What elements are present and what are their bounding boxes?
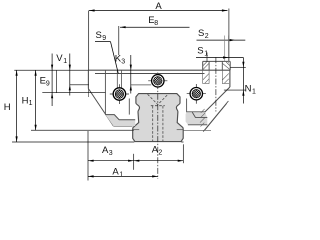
right ledge line extension <box>183 129 211 131</box>
dimension V1 <box>56 53 88 96</box>
screw circle 3 (right lube port) <box>187 79 206 109</box>
ground baseline (H reference) <box>12 141 134 143</box>
rail countersink (dashed V) <box>148 94 168 104</box>
left inner wall near rail head <box>128 99 130 115</box>
hatched bands below top line <box>203 70 229 83</box>
dimension S1 <box>196 46 243 62</box>
dimension A <box>89 1 229 70</box>
svg-text:S: S <box>198 28 204 39</box>
svg-text:A: A <box>112 167 119 178</box>
label S9 with leader <box>95 30 118 74</box>
cavity ceiling line (K3 reference) <box>131 84 152 86</box>
svg-text:3: 3 <box>121 58 125 65</box>
svg-text:N: N <box>245 83 252 94</box>
dimension H1 <box>22 70 37 130</box>
dimension E8 <box>119 15 190 55</box>
svg-text:S: S <box>96 30 102 41</box>
svg-text:H: H <box>4 102 11 113</box>
dimension K3 <box>115 53 132 93</box>
svg-text:3: 3 <box>109 150 113 157</box>
dimension N1 <box>224 58 256 104</box>
svg-text:1: 1 <box>252 88 256 95</box>
rail base shoulder ticks <box>133 129 139 131</box>
svg-text:1: 1 <box>119 171 123 178</box>
dimension A1 <box>88 131 158 181</box>
svg-text:1: 1 <box>29 100 33 107</box>
svg-text:9: 9 <box>46 81 50 88</box>
left lower lip (gray) <box>105 115 135 126</box>
rail cross-section body <box>133 94 184 142</box>
nut centerline <box>215 57 217 111</box>
svg-text:2: 2 <box>158 150 162 157</box>
right block edge <box>229 70 231 87</box>
right big chamfer <box>205 87 230 112</box>
dimension A3 <box>88 145 134 162</box>
dimension A2 <box>134 144 184 170</box>
end cap joint vertical <box>104 70 106 114</box>
right lower lip gray <box>186 112 208 125</box>
svg-text:S: S <box>197 46 203 57</box>
svg-text:2: 2 <box>205 33 209 40</box>
short edge line right of E9 <box>56 70 58 93</box>
svg-text:8: 8 <box>154 20 158 27</box>
right bottom edge <box>187 111 206 113</box>
svg-text:H: H <box>22 95 29 106</box>
rail bolt hole dashed <box>152 106 154 141</box>
dimension H <box>4 70 18 142</box>
clamp nut section top right <box>203 61 231 70</box>
block left edge <box>87 70 89 88</box>
countersink bottom dashed <box>151 105 165 107</box>
inner parallel chamfer lines <box>203 101 228 132</box>
screw circle 2 (rail bolt, center) <box>148 66 167 96</box>
block left chamfer diagonal <box>88 89 113 126</box>
lube channel <box>116 70 118 87</box>
svg-text:1: 1 <box>63 58 67 65</box>
svg-text:1: 1 <box>204 51 208 58</box>
block top surface long line <box>14 69 88 71</box>
right inner wall near rail head <box>186 99 188 113</box>
dimension S2 <box>197 28 246 63</box>
svg-text:9: 9 <box>102 35 106 42</box>
dimension E9 <box>40 54 106 107</box>
rail centerline <box>157 73 159 180</box>
svg-text:V: V <box>56 53 63 64</box>
H1 reference line <box>31 129 134 131</box>
screw circle 1 (left lube port) <box>110 79 129 109</box>
right sliver hatch near chamfers <box>200 109 205 127</box>
block bottom left segment <box>113 125 132 127</box>
